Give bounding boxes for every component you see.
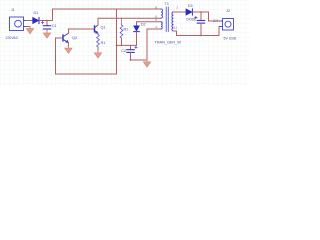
wire J1 pin1 to D1 [26,20,33,22]
ground under J1 pin2 [26,27,33,34]
wire secondary bottom pin 11 to J2 pin2 [174,27,223,36]
wire C4 bottom lead [200,23,202,35]
svg-text:DIODE: DIODE [186,18,196,22]
svg-text:C1: C1 [52,24,57,28]
wire Q1 collector to rail B (primary bottom pin 6) [98,18,161,25]
transistor Q1 [95,25,99,34]
wire C1 bottom lead [46,29,48,31]
junction C2 / ground node [130,59,132,61]
ground under Q2 [65,46,72,53]
wire snubber node horizontal [117,44,137,46]
node junction C4 [200,11,202,13]
wire D3 cathode to J2 pin1 [193,12,222,21]
svg-text:Q1: Q1 [101,26,106,30]
wire R1 bottom lead [97,47,99,51]
wire secondary top pin 2 to D3 [174,11,187,13]
capacitor C1 [41,22,50,30]
resistor R1 [97,35,100,47]
svg-text:J2: J2 [226,9,230,13]
wire Q2 emitter down [67,43,69,47]
transformer T1 [161,7,174,32]
capacitor C2 top lead [130,45,132,49]
svg-text:R1: R1 [101,41,106,45]
wire Q1 emitter down to R1 [97,34,99,35]
svg-text:11: 11 [174,26,177,30]
svg-text:Q2: Q2 [72,36,77,40]
diode D2 pointing down [134,26,140,32]
ground at aux return node [143,60,150,67]
svg-text:D2: D2 [141,23,146,27]
wire long vertical bus from top rail to loop [116,9,118,74]
svg-text:TRAN_GEN_W: TRAN_GEN_W [155,41,182,45]
primary winding [161,9,163,18]
wire C4 top lead [200,12,202,20]
svg-text:5V USB: 5V USB [224,37,237,41]
junction bus / snubber node [116,45,118,47]
wire R2 bottom lead [121,38,123,45]
resistor R2 top lead [121,18,123,25]
svg-text:220VAC: 220VAC [6,36,19,40]
wire Q2 collector up and right to Q1 base [69,29,95,33]
ground under R1 [94,51,101,58]
svg-text:D1: D1 [34,11,39,15]
wire J1 pin2 [26,26,30,28]
wire D1 to corner [39,20,52,22]
wire aux winding pin5 to D2 corner [137,22,162,26]
capacitor C4 [195,16,205,23]
wire C2 bottom lead to ground node [131,53,148,60]
node junction at C1 [46,20,48,22]
top rail wire to transformer pin 8 [53,8,162,10]
core lines [166,7,168,32]
connector J1 [10,17,27,31]
diode D1 [33,17,39,23]
diode D3 [186,9,192,15]
transistor Q2 [63,33,69,43]
wire aux winding pin4 down [146,29,148,60]
svg-text:R2: R2 [124,28,129,32]
wire loop bottom [56,73,117,75]
connector J2 [220,19,234,31]
ground under C1 [43,31,50,38]
junction C4 bottom / output return [200,35,202,37]
capacitor C2 [127,46,137,52]
svg-text:D3: D3 [188,4,193,8]
svg-text:C4: C4 [213,19,218,23]
wire loop left vertical [55,38,57,74]
svg-text:C2: C2 [121,49,126,53]
wire C1 top lead [46,21,48,26]
svg-text:T1: T1 [165,2,169,6]
wire up to top rail [52,9,54,21]
wire D2 bottom lead [136,32,138,46]
wire aux winding pin4 horizontal [147,28,161,30]
wire Q2 base [56,37,64,39]
aux winding [161,22,162,29]
secondary winding [172,12,174,31]
resistor R2 [120,25,123,38]
svg-text:J1: J1 [11,8,15,12]
